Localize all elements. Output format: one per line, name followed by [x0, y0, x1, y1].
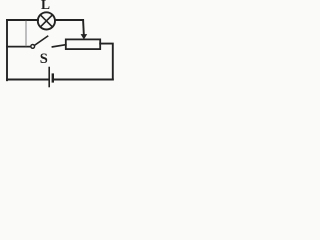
svg-text:L: L: [41, 0, 50, 12]
svg-text:S: S: [40, 51, 48, 67]
